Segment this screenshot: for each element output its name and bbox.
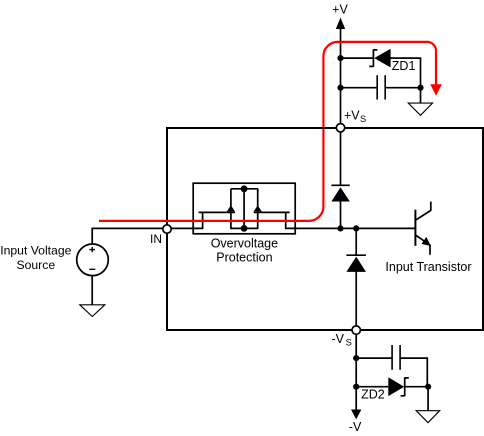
node +VS [336, 124, 344, 132]
junction dot C1-ground [417, 85, 423, 91]
junction dot rail-C1 [337, 85, 343, 91]
wire +V rail [340, 28, 342, 123]
svg-text:Source: Source [16, 258, 55, 272]
wire box top edge segment over red path [317, 127, 330, 129]
label +VS [344, 108, 366, 124]
red overvoltage current path [99, 42, 442, 221]
junction dot rail-ZD2 [353, 384, 359, 390]
wire ZD1 anode lead [390, 58, 420, 88]
wire D1 to input wire [340, 201, 342, 228]
wire -VS rail [355, 334, 357, 410]
wire C1 right lead [385, 87, 420, 89]
wire D2 to -VS node [355, 271, 357, 326]
junction dot rail-C2 [353, 355, 359, 361]
wire input to D2 [355, 228, 357, 255]
svg-text:IN: IN [150, 232, 162, 246]
svg-text:Input Voltage: Input Voltage [0, 244, 71, 258]
diode D2 [346, 255, 366, 272]
ground source [80, 276, 105, 317]
wire C1 left lead [341, 87, 378, 89]
svg-text:S: S [360, 114, 366, 124]
wire ZD2 cathode lead [405, 386, 428, 388]
ground top [408, 88, 432, 116]
label Overvoltage Protection [211, 237, 278, 265]
clamp element left [199, 189, 235, 229]
node -VS [352, 326, 360, 334]
node IN [163, 225, 171, 233]
junction dot clamp bottom [241, 225, 248, 232]
svg-text:Input Transistor: Input Transistor [385, 260, 471, 274]
wire clamp top rail [231, 188, 258, 190]
amplifier boundary box [167, 128, 483, 330]
junction dot D2-input [353, 225, 359, 231]
svg-text:S: S [346, 338, 352, 348]
wire C2 left lead [356, 357, 392, 359]
power arrow -V [351, 410, 361, 420]
junction dot D1-input [337, 225, 343, 231]
wire clamp center link [243, 189, 245, 229]
svg-text:+V: +V [344, 108, 360, 122]
diode D1 [331, 185, 349, 201]
svg-text:ZD1: ZD1 [392, 59, 416, 73]
wire IN to left clamp leg [171, 227, 204, 229]
wire ZD1 cathode lead [341, 57, 374, 59]
clamp element right [254, 189, 290, 229]
overvoltage protection block box [193, 183, 295, 234]
svg-text:-V: -V [349, 420, 362, 434]
power arrow +V [336, 18, 345, 29]
capacitor C2 [392, 345, 400, 370]
label -VS [332, 332, 352, 348]
svg-text:+V: +V [332, 3, 348, 17]
input voltage source V1 [77, 244, 109, 276]
label Input Voltage Source [0, 244, 71, 272]
zener diode ZD2 [388, 377, 409, 396]
svg-text:Protection: Protection [216, 250, 272, 264]
svg-text:ZD2: ZD2 [361, 387, 385, 401]
npn input transistor Q1 [415, 202, 431, 255]
wire +VS to D1 [340, 132, 342, 186]
wire source to IN [92, 228, 162, 244]
wire C2 right lead [400, 358, 427, 387]
wire right clamp leg to transistor base [285, 227, 415, 229]
junction dot rail-ZD1 [337, 55, 343, 61]
wire ZD2 anode lead [356, 386, 388, 388]
svg-text:-V: -V [332, 332, 345, 346]
svg-text:Overvoltage: Overvoltage [211, 237, 278, 251]
junction dot clamp top [241, 185, 248, 192]
zener diode ZD1 [369, 49, 390, 68]
ground bottom [416, 387, 440, 423]
wire between clamp elements [230, 227, 258, 229]
capacitor C1 [377, 75, 385, 99]
junction dot ZD2-ground [425, 384, 431, 390]
